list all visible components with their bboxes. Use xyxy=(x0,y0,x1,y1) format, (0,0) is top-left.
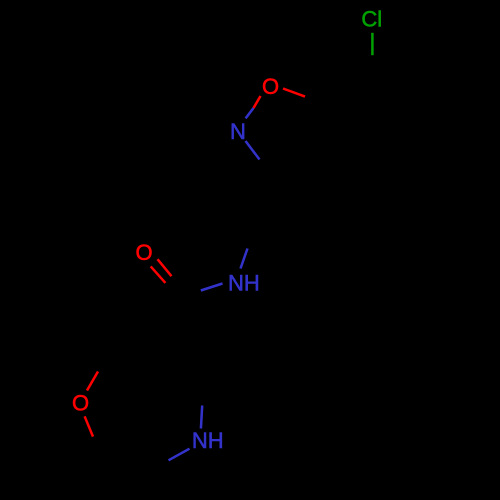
svg-text:NH: NH xyxy=(192,428,224,453)
svg-text:O: O xyxy=(72,391,89,416)
svg-text:Cl: Cl xyxy=(361,7,382,32)
svg-text:N: N xyxy=(230,119,246,144)
svg-text:O: O xyxy=(262,74,279,99)
svg-text:O: O xyxy=(135,240,152,265)
svg-text:NH: NH xyxy=(228,270,260,295)
